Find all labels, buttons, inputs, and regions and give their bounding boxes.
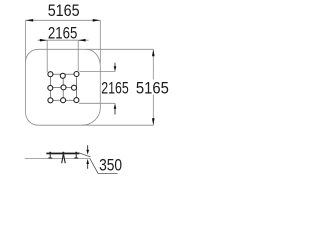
ground line (elevation) <box>25 158 89 160</box>
arrow left of 2165 top (outside, pointing right) <box>40 39 47 42</box>
post center <box>61 85 66 90</box>
down arrow of right 2165 dim <box>114 63 116 67</box>
arrow right of 5165 top <box>93 19 101 22</box>
left post nub above bar <box>49 152 51 153</box>
extension line bottom of right 5165 dim <box>82 124 153 126</box>
up arrow of right 2165 dim <box>114 108 116 114</box>
dimension line 5165 top <box>26 19 101 21</box>
right foot (elevation) <box>74 157 78 159</box>
down arrow of 350 dim <box>87 145 89 150</box>
right leg (elevation) <box>75 154 77 158</box>
leader line of 350 label <box>90 158 99 173</box>
arrow right of 2165 top (outside, pointing left) <box>78 39 85 42</box>
dimension line 2165 top <box>38 39 89 41</box>
post bottom-middle <box>61 98 66 103</box>
slanted extension line top of 350 dim <box>78 153 91 157</box>
up arrow of right 5165 dim <box>152 49 155 56</box>
post bottom-left <box>48 98 53 103</box>
extension line left of 2165 top dim <box>46 40 48 72</box>
post middle-left <box>48 85 53 90</box>
shelf line under 350 label <box>98 173 118 175</box>
equipment middle vertical beam <box>62 74 64 100</box>
post top-middle <box>60 73 65 78</box>
extension line right of 5165 top dim <box>99 20 101 63</box>
dimension line 5165 right vertical upper part <box>152 49 154 79</box>
post middle-right <box>72 85 77 90</box>
net bar (elevation) <box>46 153 79 155</box>
safety zone rounded square (plan view) <box>26 49 101 125</box>
up arrow of 350 dim <box>86 159 89 164</box>
equipment middle horizontal beam <box>50 87 76 89</box>
dimension line 5165 right vertical lower part <box>152 95 154 126</box>
svg-text:5165: 5165 <box>48 1 80 20</box>
extension line top of right 2165 dim <box>80 71 116 73</box>
extension line left of 5165 top dim <box>25 20 27 61</box>
post top-right <box>74 72 79 77</box>
right post nub above bar <box>75 152 77 153</box>
post top-left <box>48 72 53 77</box>
down arrow of right 5165 dim <box>152 118 155 125</box>
extension line right of 2165 top dim <box>77 40 79 71</box>
left leg (elevation) <box>49 154 51 158</box>
post bottom-right <box>74 98 79 103</box>
center A-frame leg (elevation) <box>62 154 65 163</box>
svg-text:5165: 5165 <box>136 79 169 98</box>
extension line bottom of right 2165 dim <box>79 102 115 104</box>
svg-text:2165: 2165 <box>101 79 129 98</box>
extension line top of right 5165 dim <box>86 48 153 50</box>
svg-text:350: 350 <box>99 155 122 174</box>
arrow left of 5165 top <box>26 19 34 22</box>
center post nub above bar <box>63 152 65 153</box>
equipment frame square (plan) <box>50 74 76 100</box>
svg-text:2165: 2165 <box>48 24 78 43</box>
left foot (elevation) <box>48 157 52 159</box>
